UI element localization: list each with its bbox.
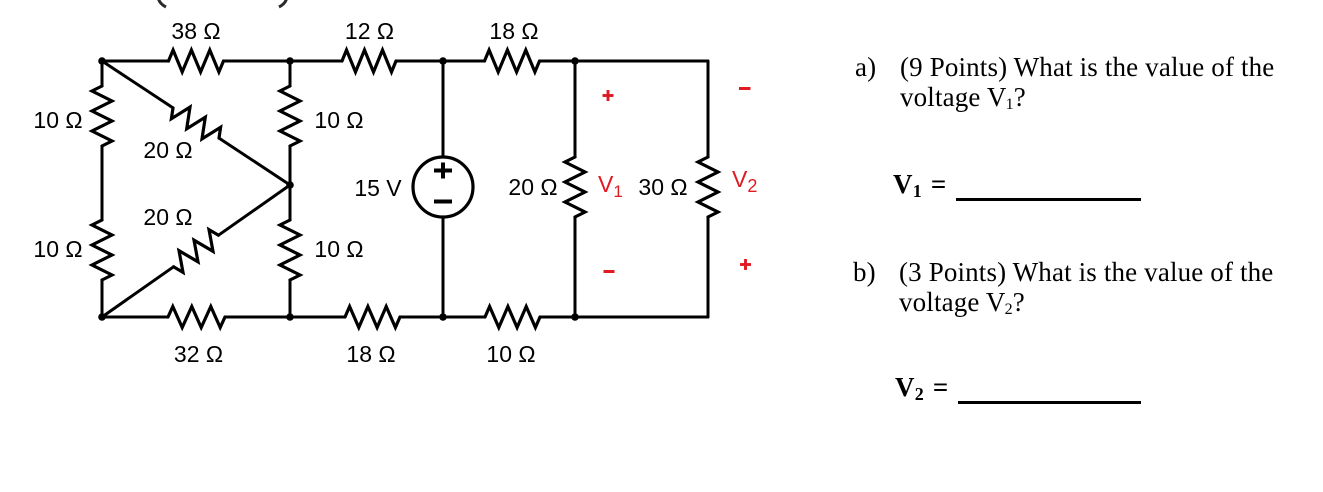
svg-text:10 Ω: 10 Ω — [486, 341, 535, 367]
label 20 ohm diagonal upper — [143, 137, 192, 163]
wire V1 branch x=575 — [574, 61, 577, 317]
node middle junction — [286, 181, 294, 189]
svg-text:12 Ω: 12 Ω — [345, 18, 394, 44]
svg-text:20 Ω: 20 Ω — [143, 137, 192, 163]
svg-text:32 Ω: 32 Ω — [174, 341, 223, 367]
node top at source branch — [439, 57, 447, 65]
label 10 ohm middle lower — [314, 236, 363, 262]
resistor 10ohm middle upper — [280, 86, 300, 146]
wire bottom rail y=317 — [102, 316, 708, 319]
node V1 label — [598, 171, 623, 201]
node V2 label — [732, 166, 757, 196]
node V1 polarity minus — [604, 270, 615, 273]
svg-text:18 Ω: 18 Ω — [346, 341, 395, 367]
node bottom at middle rail — [286, 313, 294, 321]
svg-text:V1: V1 — [598, 171, 623, 201]
node V2 polarity plus — [740, 259, 751, 270]
voltage source 15V — [413, 157, 473, 217]
svg-text:20 Ω: 20 Ω — [143, 204, 192, 230]
resistor 18ohm top — [485, 50, 540, 72]
label 38 ohm — [171, 18, 220, 44]
resistor 10ohm bottom — [485, 307, 540, 328]
node V2 polarity minus — [739, 87, 751, 90]
svg-text:10 Ω: 10 Ω — [33, 236, 82, 262]
label 18 ohm top — [489, 18, 538, 44]
resistor 20ohm diagonal lower — [174, 230, 219, 273]
node bottom at V1 branch — [571, 313, 579, 321]
resistor 30ohm V2 branch — [698, 157, 718, 217]
resistor 12ohm top — [342, 50, 396, 72]
svg-text:10 Ω: 10 Ω — [314, 107, 363, 133]
svg-text:20 Ω: 20 Ω — [508, 174, 557, 200]
svg-text:10 Ω: 10 Ω — [33, 107, 82, 133]
wire middle rail x=290 — [289, 61, 292, 317]
wire left rail x=102 — [101, 61, 104, 317]
resistor 18ohm bottom — [345, 307, 400, 328]
resistor 32ohm bottom — [168, 307, 225, 328]
resistor 10ohm middle lower — [280, 220, 300, 280]
resistor 10ohm left upper — [92, 86, 112, 146]
svg-text:38 Ω: 38 Ω — [171, 18, 220, 44]
label 32 ohm — [174, 341, 223, 367]
svg-text:30 Ω: 30 Ω — [638, 174, 687, 200]
node top at middle rail — [286, 57, 294, 65]
answer blank V2 — [895, 372, 949, 403]
svg-text:V2: V2 — [732, 166, 757, 196]
answer blank V1 — [893, 169, 947, 200]
label 10 ohm left lower — [33, 236, 82, 262]
wire diagonal lower — [102, 185, 290, 317]
label 30 ohm V2 branch — [638, 174, 687, 200]
resistor 20ohm V1 branch — [565, 157, 585, 217]
node top at V1 branch — [571, 57, 579, 65]
label 15 V — [354, 175, 402, 201]
resistor 10ohm left lower — [92, 220, 112, 280]
wire diagonal upper — [102, 61, 290, 185]
wire source branch x=443 — [442, 61, 445, 317]
label 10 ohm middle upper — [314, 107, 363, 133]
wire V2 branch x=708 — [707, 61, 710, 317]
node bottom-left — [98, 313, 106, 321]
resistor 38ohm top — [169, 50, 224, 72]
resistor 20ohm diagonal upper — [171, 107, 220, 139]
question b — [853, 257, 876, 287]
svg-text:15 V: 15 V — [354, 175, 402, 201]
label 20 ohm V1 branch — [508, 174, 557, 200]
question a — [855, 52, 876, 82]
wire top rail y=61 — [102, 60, 708, 63]
label 20 ohm diagonal lower — [143, 204, 192, 230]
label 10 ohm left upper — [33, 107, 82, 133]
cut-off parenthesis fragments at top — [159, 0, 287, 7]
label 12 ohm — [345, 18, 394, 44]
node V1 polarity plus — [603, 90, 614, 101]
label 10 ohm bottom — [486, 341, 535, 367]
node bottom at source branch — [439, 313, 447, 321]
node top-left — [98, 57, 106, 65]
label 18 ohm bottom — [346, 341, 395, 367]
svg-text:18 Ω: 18 Ω — [489, 18, 538, 44]
svg-text:10 Ω: 10 Ω — [314, 236, 363, 262]
